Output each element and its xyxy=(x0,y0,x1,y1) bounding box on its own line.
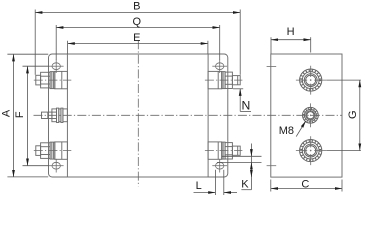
dim B line xyxy=(35,12,240,14)
svg-text:B: B xyxy=(133,1,140,13)
dim B ext left xyxy=(34,10,36,75)
side view terminal bottom xyxy=(300,140,322,162)
side ground stud vertical crosshair xyxy=(309,103,311,127)
dim L ext right xyxy=(223,170,225,195)
dim F ext bottom xyxy=(23,165,49,167)
dim N ext xyxy=(233,88,243,90)
dim B ext right xyxy=(239,10,241,75)
svg-text:G: G xyxy=(347,110,359,119)
dim E ext right xyxy=(207,41,209,54)
side view ground stud middle xyxy=(303,107,319,123)
dim A ext top xyxy=(7,53,48,55)
svg-text:F: F xyxy=(14,111,26,118)
svg-text:M8: M8 xyxy=(279,125,294,137)
dim K ext lower xyxy=(217,161,262,163)
dim G ext top xyxy=(326,79,361,81)
right mounting flange xyxy=(208,54,228,177)
bottom-left bolt centerline xyxy=(34,150,72,152)
svg-text:C: C xyxy=(301,178,309,190)
side view case xyxy=(271,54,342,177)
terminal bolt top-right xyxy=(208,71,240,88)
terminal bolt bottom-left xyxy=(36,142,68,159)
dim Q ext right xyxy=(219,25,221,60)
svg-text:L: L xyxy=(196,180,202,192)
terminal bolt bottom-right xyxy=(208,142,240,159)
svg-text:A: A xyxy=(0,109,12,117)
side terminal top crosshair xyxy=(296,66,326,95)
top-right bolt centerline xyxy=(205,79,243,81)
side view terminal top xyxy=(300,69,322,91)
dim K arrow down to bottom edge xyxy=(250,171,252,178)
side terminal bottom crosshair xyxy=(296,136,326,165)
svg-text:H: H xyxy=(287,26,295,38)
mounting hole bottom-left xyxy=(49,159,64,173)
dim F ext top xyxy=(23,65,49,67)
bottom-right bolt centerline xyxy=(205,150,243,152)
mounting hole bottom-right xyxy=(212,159,227,173)
flange hole tick top xyxy=(267,65,277,67)
dim K vertical leader xyxy=(250,144,252,190)
flange hole tick bottom xyxy=(267,165,277,167)
top-left bolt centerline xyxy=(34,79,72,81)
dim L ext left xyxy=(214,170,216,195)
vertical centerline xyxy=(137,40,139,186)
main horizontal centerline xyxy=(34,114,343,116)
dim G ext bottom xyxy=(326,150,361,152)
dim G line xyxy=(359,80,361,151)
dim N leader xyxy=(239,95,241,111)
dim L line left xyxy=(194,192,216,194)
svg-text:K: K xyxy=(241,179,249,191)
svg-text:Q: Q xyxy=(133,16,142,28)
terminal bolt top-left xyxy=(36,71,68,88)
centerlines xyxy=(34,40,343,186)
dim H line xyxy=(271,39,311,41)
dimension lines xyxy=(7,10,361,196)
dim K arrow down xyxy=(250,150,252,157)
dim C line xyxy=(271,188,342,190)
M8 leader xyxy=(296,121,306,137)
ground stud middle-left xyxy=(42,108,68,122)
dim K ext upper xyxy=(222,155,262,157)
svg-text:N: N xyxy=(241,98,250,112)
body (front view case) xyxy=(67,54,208,177)
dim L line right xyxy=(224,192,237,194)
left mounting flange xyxy=(49,54,68,177)
dim Q line xyxy=(56,27,220,29)
mounting hole top-left xyxy=(49,59,64,73)
mounting hole top-right xyxy=(212,59,227,73)
dim K arrow up xyxy=(250,162,252,169)
dim C ext left xyxy=(270,180,272,192)
dim A ext bottom xyxy=(7,176,48,178)
dim E ext left xyxy=(67,41,69,54)
dim F line xyxy=(27,66,29,166)
dim E line xyxy=(68,43,208,45)
svg-text:E: E xyxy=(133,32,140,44)
dim H ext left xyxy=(270,37,272,53)
dim H ext right xyxy=(310,37,312,52)
dim C ext right xyxy=(341,180,343,192)
dim Q ext left xyxy=(55,25,57,60)
dim A line xyxy=(13,54,15,177)
